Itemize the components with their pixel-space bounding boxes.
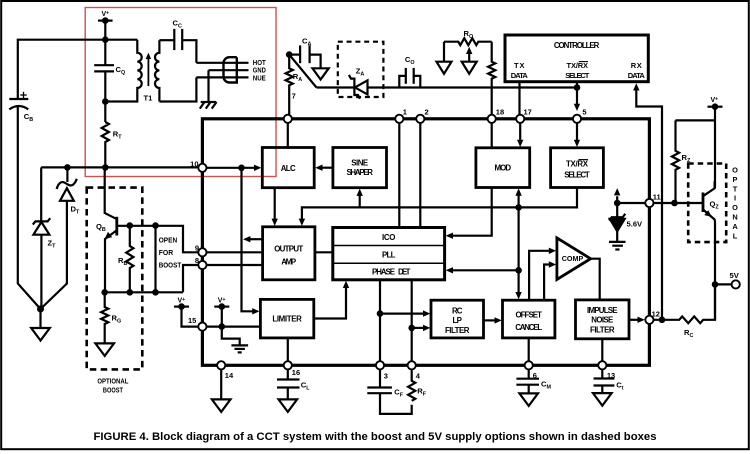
svg-text:TX/RX: TX/RX xyxy=(567,61,589,70)
svg-text:RX: RX xyxy=(631,61,642,70)
svg-text:9: 9 xyxy=(195,243,199,252)
svg-text:FILTER: FILTER xyxy=(445,326,470,335)
svg-text:LIMITER: LIMITER xyxy=(272,315,302,324)
svg-text:O: O xyxy=(732,203,738,212)
svg-text:SHAPER: SHAPER xyxy=(346,168,373,177)
svg-text:7: 7 xyxy=(292,92,296,101)
svg-text:T1: T1 xyxy=(144,94,154,103)
svg-text:FILTER: FILTER xyxy=(590,326,615,335)
svg-text:DET: DET xyxy=(398,268,411,277)
svg-text:12: 12 xyxy=(652,310,660,319)
svg-text:BOOST: BOOST xyxy=(159,260,182,269)
svg-text:1: 1 xyxy=(403,107,407,116)
svg-text:SELECT: SELECT xyxy=(564,171,590,180)
svg-text:CONTROLLER: CONTROLLER xyxy=(554,41,600,50)
svg-text:11: 11 xyxy=(653,193,661,202)
svg-text:OPTIONAL: OPTIONAL xyxy=(97,376,128,385)
svg-text:RC: RC xyxy=(452,307,463,316)
svg-text:ICO: ICO xyxy=(382,233,396,242)
svg-text:13: 13 xyxy=(607,371,615,380)
svg-text:3: 3 xyxy=(384,372,388,381)
svg-text:BOOST: BOOST xyxy=(103,386,123,395)
svg-text:OPEN: OPEN xyxy=(159,236,178,245)
svg-text:OFFSET: OFFSET xyxy=(515,311,542,320)
svg-text:2: 2 xyxy=(425,107,429,116)
svg-text:LP: LP xyxy=(452,316,462,325)
svg-text:L: L xyxy=(733,231,738,240)
svg-text:FIGURE 4. Block diagram of a C: FIGURE 4. Block diagram of a CCT system … xyxy=(94,431,657,443)
svg-text:A: A xyxy=(732,222,738,231)
svg-text:5: 5 xyxy=(582,107,586,116)
svg-text:5.6V: 5.6V xyxy=(627,219,644,228)
svg-text:SELECT: SELECT xyxy=(565,71,589,80)
svg-text:ALC: ALC xyxy=(281,164,296,173)
svg-text:T: T xyxy=(733,184,738,193)
svg-text:N: N xyxy=(732,213,737,222)
svg-text:PLL: PLL xyxy=(382,250,396,259)
svg-text:O: O xyxy=(732,166,738,175)
svg-text:P: P xyxy=(733,175,738,184)
svg-text:NUE: NUE xyxy=(253,73,266,82)
svg-text:14: 14 xyxy=(225,371,234,380)
svg-text:16: 16 xyxy=(292,368,300,377)
svg-text:TX/RX: TX/RX xyxy=(566,160,589,169)
svg-text:18: 18 xyxy=(496,107,504,116)
svg-text:MOD: MOD xyxy=(495,164,512,173)
svg-text:I: I xyxy=(734,194,736,203)
svg-text:15: 15 xyxy=(188,316,196,325)
svg-text:TX: TX xyxy=(514,61,525,70)
svg-text:CANCEL: CANCEL xyxy=(515,323,542,332)
svg-text:17: 17 xyxy=(524,107,532,116)
svg-text:IMPULSE: IMPULSE xyxy=(587,306,618,315)
svg-text:AMP: AMP xyxy=(281,258,296,267)
svg-text:10: 10 xyxy=(190,159,198,168)
svg-text:FOR: FOR xyxy=(159,248,174,257)
svg-text:DATA: DATA xyxy=(511,71,529,80)
svg-text:COMP: COMP xyxy=(562,254,584,263)
svg-text:8: 8 xyxy=(195,256,199,265)
svg-text:DATA: DATA xyxy=(628,71,646,80)
svg-text:6: 6 xyxy=(533,371,537,380)
svg-text:SINE: SINE xyxy=(351,159,368,168)
svg-text:OUTPUT: OUTPUT xyxy=(274,245,303,254)
svg-text:NOISE: NOISE xyxy=(591,316,613,325)
svg-text:PHASE: PHASE xyxy=(372,268,395,277)
svg-text:5V: 5V xyxy=(730,271,740,280)
